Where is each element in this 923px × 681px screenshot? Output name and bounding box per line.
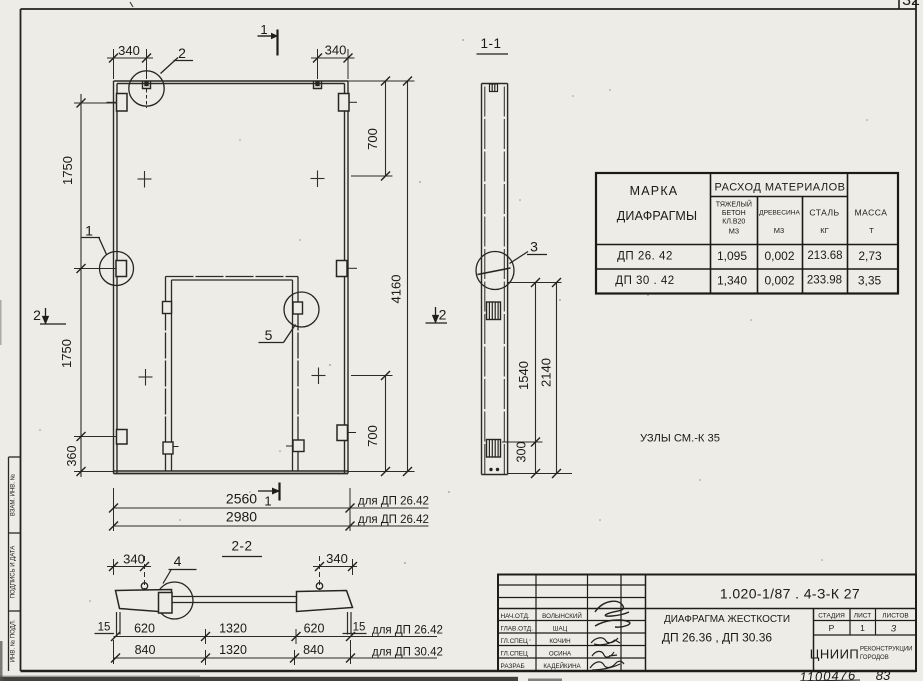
svg-text:1750: 1750	[59, 339, 74, 368]
hatched plate lower (1-1)	[487, 440, 501, 458]
svg-text:ДИАФРАГМЫ: ДИАФРАГМЫ	[617, 209, 697, 223]
svg-text:МАРКА: МАРКА	[630, 184, 679, 198]
svg-text:УЗЛЫ СМ.-К 35: УЗЛЫ СМ.-К 35	[640, 433, 720, 445]
svg-text:2: 2	[33, 307, 41, 323]
signature row 5	[590, 661, 624, 670]
svg-text:БЕТОН: БЕТОН	[722, 210, 746, 217]
loop anchor at column top	[490, 84, 498, 92]
callout circle 3	[476, 252, 514, 290]
svg-text:Т: Т	[869, 226, 874, 235]
embedded plate door-jamb right lower	[293, 440, 304, 452]
svg-text:1750: 1750	[60, 156, 75, 185]
svg-text:1100476: 1100476	[799, 668, 856, 681]
section mark 2 (right)	[426, 307, 448, 323]
left extension lines	[74, 103, 117, 472]
svg-text:РАЗРАБ: РАЗРАБ	[501, 663, 525, 670]
340 dimension right (section 2-2)	[313, 559, 357, 575]
svg-text:КГ: КГ	[820, 226, 828, 235]
svg-text:ДП 30 . 42: ДП 30 . 42	[615, 275, 674, 287]
svg-text:КАДЕЙКИНА: КАДЕЙКИНА	[543, 662, 581, 670]
signature row 3	[591, 638, 620, 645]
extension verticals	[114, 488, 351, 531]
svg-text:3,35: 3,35	[858, 274, 882, 288]
svg-text:840: 840	[135, 643, 156, 657]
callout circle 5 (jamb plate)	[259, 292, 320, 343]
embedded plate left bottom	[117, 430, 128, 445]
slanted plate inside circle 3	[478, 268, 511, 275]
svg-text:КЛ.В20: КЛ.В20	[722, 219, 745, 226]
callout circle 2 (lifting loop)	[129, 58, 193, 107]
svg-text:2: 2	[178, 45, 186, 61]
loop centreline left	[144, 556, 146, 590]
svg-text:Р: Р	[829, 623, 835, 633]
lifting loop left (top edge)	[143, 81, 151, 108]
svg-text:НАЧ.ОТД.: НАЧ.ОТД.	[501, 613, 530, 620]
svg-text:1,340: 1,340	[717, 274, 747, 288]
left flange of section 2-2	[116, 590, 172, 613]
svg-text:700: 700	[365, 425, 380, 447]
embedded plate right top	[339, 94, 350, 112]
svg-text:2980: 2980	[226, 509, 257, 525]
svg-text:1: 1	[860, 623, 865, 633]
svg-text:ВЗАМ. ИНВ. №: ВЗАМ. ИНВ. №	[10, 474, 17, 516]
callout circle 1 (edge plate)	[82, 238, 134, 286]
centre cross mark lower left	[139, 369, 153, 386]
svg-text:СТАЛЬ: СТАЛЬ	[809, 208, 839, 218]
embedded plate door-jamb right upper (detail 5)	[293, 302, 303, 314]
dimension row 620/1320/620	[114, 636, 438, 638]
svg-text:2,73: 2,73	[858, 249, 882, 263]
svg-text:360: 360	[65, 446, 79, 467]
svg-text:для ДП 26.42: для ДП 26.42	[358, 514, 429, 526]
left chain slash ticks	[77, 99, 86, 477]
svg-text:340: 340	[123, 552, 145, 567]
dimension line 2560	[114, 507, 429, 509]
svg-text:340: 340	[118, 43, 140, 58]
svg-text:2140: 2140	[539, 358, 554, 387]
svg-text:ВОЛЫНСКИЙ: ВОЛЫНСКИЙ	[542, 612, 582, 620]
dimension line 2980	[114, 525, 429, 527]
embedded plate left middle (detail 1)	[116, 261, 127, 277]
svg-text:3: 3	[530, 239, 538, 255]
section mark 2 (left)	[40, 308, 66, 324]
svg-text:М3: М3	[729, 227, 739, 236]
svg-text:32: 32	[902, 0, 920, 9]
right extension lines	[348, 81, 415, 472]
section mark 1 (top)	[258, 30, 278, 56]
svg-text:МАССА: МАССА	[855, 208, 888, 218]
svg-text:ДИАФРАГМА ЖЕСТКОСТИ: ДИАФРАГМА ЖЕСТКОСТИ	[664, 614, 790, 625]
svg-text:ОСИНА: ОСИНА	[549, 651, 572, 658]
embedded plate left top	[117, 94, 128, 112]
top-right 340 dimension	[311, 49, 355, 79]
svg-text:ЦНИИП: ЦНИИП	[810, 647, 860, 662]
svg-text:КОЧИН: КОЧИН	[549, 638, 570, 645]
svg-text:4: 4	[174, 553, 182, 569]
dimension chain 700 (right, two segments)	[385, 81, 387, 472]
hatched plate upper (1-1)	[487, 302, 501, 320]
top-left scan mark	[130, 2, 133, 7]
svg-text:233.98: 233.98	[807, 275, 842, 287]
svg-text:1320: 1320	[219, 622, 247, 636]
svg-text:ГЛ.СПЕЦ: ГЛ.СПЕЦ	[501, 638, 529, 645]
title block job titles	[501, 613, 534, 670]
svg-text:для ДП 30.42: для ДП 30.42	[372, 647, 443, 659]
svg-text:для ДП 26.42: для ДП 26.42	[372, 625, 443, 637]
centre cross mark lower right	[312, 368, 326, 385]
embedded plate right bottom	[337, 425, 348, 441]
svg-text:ГОРОДОВ: ГОРОДОВ	[860, 655, 889, 661]
section mark 1 (bottom, arrow)	[258, 483, 280, 501]
svg-text:1.020-1/87 . 4-З-К 27: 1.020-1/87 . 4-З-К 27	[720, 586, 860, 602]
svg-text:0,002: 0,002	[764, 274, 794, 288]
svg-text:ДП 26. 42: ДП 26. 42	[617, 251, 673, 263]
right flange of section 2-2	[297, 591, 353, 612]
extension lines (1-1 dims)	[502, 283, 572, 474]
svg-text:620: 620	[304, 622, 325, 636]
title block names	[542, 612, 582, 670]
lifting loop right (top edge)	[314, 81, 322, 89]
callout circle 4	[156, 582, 193, 619]
svg-text:для ДП 26.42: для ДП 26.42	[358, 496, 429, 508]
left edge scan smudge	[0, 641, 3, 681]
svg-text:340: 340	[326, 551, 348, 566]
anchor dots below lower plate	[489, 468, 492, 471]
dimension line 2140	[556, 283, 558, 474]
panel outline (double lines)	[114, 81, 349, 474]
embedded plate in circle 4	[159, 593, 173, 614]
15 offset mark left	[95, 612, 121, 635]
15 offset mark right	[343, 612, 367, 635]
svg-text:ЛИСТОВ: ЛИСТОВ	[882, 613, 909, 620]
dimension line 1540/300	[535, 283, 537, 474]
svg-text:1-1: 1-1	[480, 36, 501, 51]
signature row 4	[592, 651, 617, 657]
svg-text:1: 1	[85, 223, 93, 239]
svg-text:700: 700	[365, 128, 380, 150]
svg-text:ТЯЖЕЛЫЙ: ТЯЖЕЛЫЙ	[716, 200, 752, 209]
svg-text:15: 15	[98, 622, 111, 634]
svg-text:2560: 2560	[226, 491, 257, 507]
left margin attribute strip	[9, 457, 21, 671]
svg-text:СТАДИЯ: СТАДИЯ	[818, 613, 845, 620]
dimension line 4160	[407, 81, 409, 472]
svg-text:ДРЕВЕСИНА: ДРЕВЕСИНА	[759, 210, 800, 217]
web of section 2-2	[172, 597, 297, 603]
svg-text:300: 300	[515, 442, 529, 463]
svg-text:1: 1	[264, 494, 271, 509]
svg-text:ЛИСТ: ЛИСТ	[854, 613, 871, 620]
svg-text:ПОДПИСЬ И ДАТА: ПОДПИСЬ И ДАТА	[11, 546, 17, 599]
svg-text:2-2: 2-2	[231, 539, 252, 554]
svg-text:2: 2	[439, 307, 447, 323]
loop circle right (plan)	[316, 583, 322, 589]
svg-text:1: 1	[260, 22, 267, 37]
callout 3 label and leader	[510, 252, 529, 264]
column outline 1-1 (double lines)	[482, 84, 508, 475]
svg-text:ИНВ. № ПОДЛ.: ИНВ. № ПОДЛ.	[10, 619, 17, 662]
centre cross mark upper left	[138, 171, 152, 188]
embedded plate door-jamb left upper	[163, 302, 172, 314]
bottom scan shadow band	[0, 677, 518, 681]
svg-text:0,002: 0,002	[764, 249, 794, 263]
left dimension chain line	[80, 94, 82, 477]
svg-text:РЕКОНСТРУКЦИИ: РЕКОНСТРУКЦИИ	[860, 647, 912, 653]
centre cross mark upper right	[311, 171, 325, 188]
door opening outline (double lines)	[166, 277, 299, 472]
svg-text:83: 83	[876, 668, 891, 681]
loop centreline right	[319, 556, 321, 590]
svg-text:ГЛ.СПЕЦ: ГЛ.СПЕЦ	[501, 651, 529, 658]
svg-text:1320: 1320	[219, 643, 247, 657]
svg-text:3: 3	[891, 624, 897, 635]
scan speckles	[39, 39, 868, 641]
embedded plate right middle	[337, 261, 348, 277]
loop circle left (plan)	[141, 583, 147, 589]
svg-text:840: 840	[303, 643, 324, 657]
svg-text:340: 340	[325, 43, 347, 58]
svg-text:ШАЦ: ШАЦ	[553, 626, 568, 633]
signature scrawl large	[595, 601, 630, 627]
svg-text:1540: 1540	[516, 361, 531, 390]
top-left 340 dimension	[107, 49, 153, 79]
svg-text:4160: 4160	[389, 275, 404, 304]
svg-text:РАСХОД МАТЕРИАЛОВ: РАСХОД МАТЕРИАЛОВ	[715, 182, 846, 194]
page number 32 box tick	[898, 0, 900, 9]
svg-text:ДП 26.36 , ДП 30.36: ДП 26.36 , ДП 30.36	[662, 631, 773, 645]
svg-text:ГЛАВ.ОТД.: ГЛАВ.ОТД.	[501, 626, 534, 633]
svg-text:620: 620	[134, 622, 155, 636]
340 dimension left (section 2-2)	[107, 559, 151, 575]
svg-text:213.68: 213.68	[807, 250, 842, 262]
dimension row 840/1320/840	[114, 657, 438, 659]
svg-text:М3: М3	[774, 226, 784, 235]
embedded plate door-jamb left lower	[163, 442, 173, 454]
svg-text:1,095: 1,095	[717, 249, 747, 263]
svg-text:5: 5	[265, 327, 273, 343]
